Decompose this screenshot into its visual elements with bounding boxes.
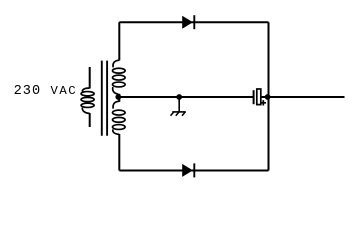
svg-text:230 VAC: 230 VAC [14, 84, 78, 99]
